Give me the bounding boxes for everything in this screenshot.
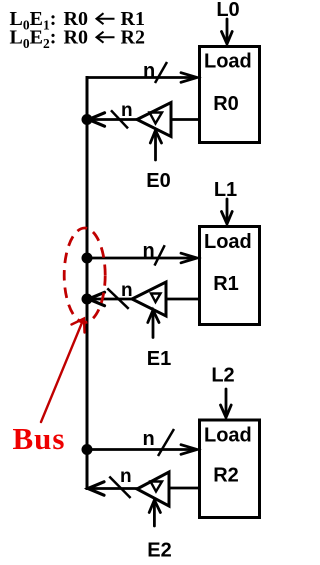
tri-state buffer E1: [132, 282, 166, 316]
svg-text:R2: R2: [213, 465, 239, 487]
red dashed ellipse around bus connection: [64, 228, 105, 322]
register R0 box: [200, 47, 260, 143]
svg-text:n: n: [143, 60, 155, 82]
svg-text:Load: Load: [204, 51, 252, 73]
tri-state buffer E2: [137, 472, 169, 506]
wire bus to R1 input (top): [87, 257, 193, 260]
svg-text:L0E2:R0R2: L0E2:R0R2: [10, 27, 145, 52]
backslash (R2 lower wire): [109, 477, 130, 499]
slash (R2 top wire): [158, 429, 174, 456]
svg-text:E1: E1: [147, 348, 171, 370]
arrowhead into R0: [181, 73, 197, 83]
backslash (R0 lower wire): [111, 110, 128, 128]
svg-text:Bus: Bus: [13, 421, 66, 456]
enable arrow E2: [149, 500, 160, 526]
enable arrow E0: [150, 130, 161, 160]
svg-text:n: n: [143, 240, 155, 262]
tri-state buffer E0: [137, 103, 171, 137]
svg-text:R1: R1: [213, 273, 239, 295]
junction dot R1 input: [82, 253, 93, 264]
arrowhead into R1: [181, 253, 197, 263]
wire bus to R0 input (top): [86, 76, 194, 79]
svg-text:n: n: [143, 428, 155, 450]
bus vertical line: [86, 76, 89, 490]
arrow glyph line 1: [97, 13, 115, 24]
arrowhead into R2: [181, 445, 197, 455]
enable arrow E1: [148, 310, 159, 338]
svg-text:R0: R0: [213, 93, 239, 115]
wire R1 to buffer E1: [166, 298, 198, 301]
wire R0 to buffer E0: [171, 118, 198, 121]
wire buffer E1 output to bus with arrowhead: [89, 292, 133, 305]
svg-text:Load: Load: [204, 231, 252, 253]
wire L1 into R1 with arrowhead: [222, 199, 233, 224]
register R2 box: [200, 420, 260, 518]
svg-text:E2: E2: [147, 540, 171, 562]
backslash (R1 lower wire): [107, 288, 128, 308]
svg-text:L0: L0: [216, 0, 239, 21]
junction dot R2 input: [82, 444, 93, 455]
wire bus to R2 input (top): [87, 448, 193, 451]
wire R2 to buffer E2: [169, 487, 198, 490]
svg-text:n: n: [120, 466, 132, 487]
register R1 box: [200, 227, 260, 325]
svg-text:n: n: [121, 280, 133, 301]
wire L0 into R0 with arrowhead: [222, 19, 233, 44]
junction dot R0: [82, 114, 93, 125]
svg-text:E0: E0: [146, 170, 170, 192]
wire buffer E2 output to bus with arrowhead: [88, 482, 137, 495]
svg-text:L1: L1: [214, 179, 237, 201]
svg-text:L2: L2: [211, 365, 234, 387]
slash (R0 top wire): [155, 62, 167, 83]
slash (R1 top wire): [155, 245, 165, 265]
arrow glyph line 2: [97, 32, 115, 43]
wire L2 into R2 with arrowhead: [221, 389, 232, 418]
junction dot R1 output: [82, 294, 93, 305]
svg-text:Load: Load: [204, 425, 252, 447]
wire buffer E0 output to bus with arrowhead: [89, 113, 138, 126]
red arrow from Bus label to ellipse: [41, 319, 85, 423]
svg-text:n: n: [121, 100, 133, 121]
